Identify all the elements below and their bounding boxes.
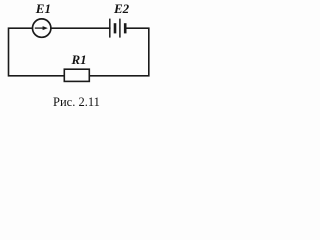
svg-text:R1: R1: [71, 52, 87, 67]
label E1: [35, 1, 51, 16]
caption Рис. 2.11: [53, 95, 100, 109]
label R1: [71, 52, 87, 67]
svg-text:E1: E1: [35, 1, 51, 16]
emf source E1 (circle with arrow): [33, 19, 51, 37]
wire loop (top, right, bottom, left sides): [9, 28, 149, 76]
svg-text:E2: E2: [113, 1, 130, 16]
battery E2: [110, 19, 125, 38]
svg-text:Рис. 2.11: Рис. 2.11: [53, 95, 100, 109]
resistor R1 (box): [64, 69, 89, 81]
label E2: [113, 1, 130, 16]
